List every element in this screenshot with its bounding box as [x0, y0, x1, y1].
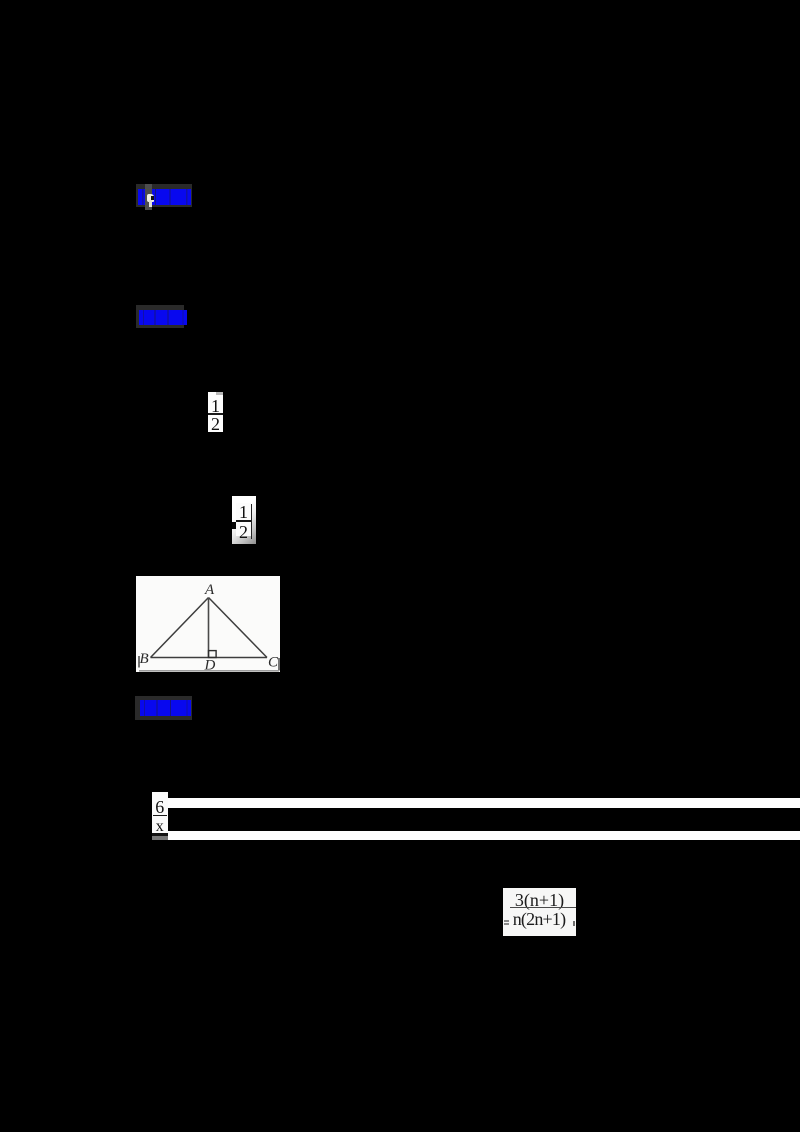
svg-text:D: D — [204, 658, 216, 673]
label box 3 (blue highlighted 【点评】) — [135, 696, 192, 720]
svg-text:B: B — [140, 651, 149, 667]
side AB — [151, 598, 209, 658]
base BC — [151, 657, 268, 659]
label box 1 (blue highlighted 【分析】) — [136, 184, 192, 207]
black underline under 6/x — [152, 833, 169, 836]
long white bar 1 — [168, 798, 800, 808]
cursor gray strip over label 1 — [145, 184, 152, 210]
cursor white pointer — [147, 194, 155, 202]
fraction 1/2 (first) — [208, 392, 223, 432]
fraction 1/2 (second, selected with gray border) — [232, 496, 256, 544]
side AC — [209, 598, 268, 658]
left edge tick — [138, 656, 140, 668]
right angle square at D — [209, 651, 217, 658]
fraction 3(n+1)/n(2n+1) — [503, 888, 576, 936]
altitude AD — [208, 598, 210, 658]
right edge tick — [278, 658, 280, 671]
small = mark left — [504, 920, 509, 922]
gray block under 6/x — [152, 836, 169, 840]
long white bar 2 — [168, 831, 800, 839]
comma right — [573, 921, 576, 926]
label box 2 (blue highlighted 【解答】) — [136, 305, 184, 328]
svg-text:A: A — [204, 582, 215, 598]
bottom gray border — [139, 670, 279, 672]
svg-text:C: C — [268, 655, 279, 671]
triangle geometry figure — [136, 576, 280, 672]
fraction 6/x — [152, 792, 168, 834]
